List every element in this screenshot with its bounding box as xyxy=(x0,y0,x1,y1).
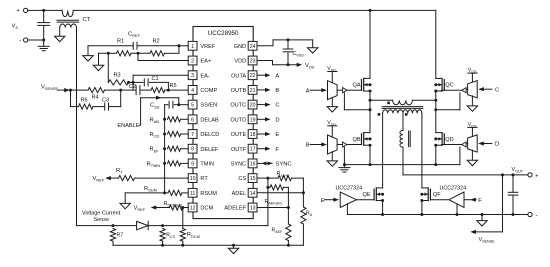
resistor RT to VREF (pin 10) xyxy=(93,176,189,183)
svg-text:SS/EN: SS/EN xyxy=(200,103,217,109)
svg-text:20: 20 xyxy=(250,103,256,109)
wire EA- (pin 3) xyxy=(132,75,189,90)
wire Vs- to input cap xyxy=(28,39,44,41)
transformer T1 primary xyxy=(369,99,438,105)
pin 6 DELAB xyxy=(188,115,219,124)
pin 15 CS xyxy=(238,174,257,183)
svg-text:OUTD: OUTD xyxy=(230,117,246,123)
gate driver buffer (C input) xyxy=(467,68,499,112)
ground (VREF bypass) xyxy=(83,46,93,61)
resistor RA(HI) CS to ADEL xyxy=(268,176,305,195)
label RAB xyxy=(150,117,160,124)
wire ground bus (timing resistors) xyxy=(163,105,166,195)
output arrow OUTA xyxy=(257,73,279,79)
svg-text:SYNC: SYNC xyxy=(276,162,292,168)
label R2 xyxy=(153,39,160,45)
resistor R2 xyxy=(150,51,165,56)
output arrow OUTC xyxy=(257,103,280,109)
pin 19 OUTD xyxy=(230,115,257,124)
label RSUM xyxy=(144,186,157,193)
output arrow OUTF xyxy=(257,147,279,153)
resistor RDCM xyxy=(180,208,185,247)
output arrow OUTE xyxy=(257,132,279,138)
label R5 xyxy=(170,83,177,89)
svg-text:OUTB: OUTB xyxy=(231,88,247,94)
wire EA+ tap (pin 2) xyxy=(138,53,188,60)
resistor RAEF(HI) CS to ADELEF xyxy=(268,185,290,209)
transistor QD xyxy=(434,133,444,147)
label QE xyxy=(363,192,371,198)
pin 12 DCM xyxy=(188,203,213,212)
svg-text:DELAB: DELAB xyxy=(200,117,219,123)
capacitor C3 xyxy=(93,90,121,110)
pin 17 OUTF xyxy=(231,144,257,153)
label Vs xyxy=(12,24,19,31)
wire GND (pin 24) xyxy=(257,38,313,45)
transistor QB xyxy=(362,133,372,147)
ground (analog) xyxy=(228,245,238,253)
resistor RTMIN xyxy=(168,161,189,166)
wire secondary left to QE drain xyxy=(382,113,384,188)
transistor QA xyxy=(362,78,372,92)
input terminal Vs+ xyxy=(17,8,28,14)
output arrow OUTB xyxy=(257,88,279,94)
svg-text:VREF: VREF xyxy=(93,176,105,183)
transistor QC xyxy=(434,78,444,92)
ground (IC GND) xyxy=(308,40,318,53)
label CREF xyxy=(128,32,141,39)
label RDCM xyxy=(187,232,200,239)
svg-text:B: B xyxy=(306,143,310,149)
pin 23 VDD xyxy=(234,56,257,65)
label RAEF xyxy=(272,228,284,235)
svg-text:C: C xyxy=(275,103,279,109)
svg-text:C2: C2 xyxy=(129,84,136,90)
transistor QF xyxy=(420,188,430,202)
label R3 xyxy=(114,73,121,79)
output terminal VOUT+ xyxy=(528,173,539,180)
svg-text:QC: QC xyxy=(445,83,453,89)
IC U1 UCC28950 body xyxy=(193,27,253,219)
label C3 xyxy=(102,98,109,104)
label RCS xyxy=(166,232,175,239)
wire U3 ground to VOUT- rail xyxy=(456,204,458,215)
resistor RCD xyxy=(168,131,189,136)
svg-text:QA: QA xyxy=(353,83,361,89)
svg-text:CREF: CREF xyxy=(128,32,141,39)
resistor RCS xyxy=(160,229,165,247)
svg-text:UCC27324: UCC27324 xyxy=(440,185,467,191)
gate coupling triangle QC xyxy=(442,88,468,93)
transistor QE xyxy=(374,188,384,202)
svg-text:E: E xyxy=(275,132,279,138)
svg-text:VSENSE: VSENSE xyxy=(41,85,58,92)
label RAEF(HI) xyxy=(265,199,282,206)
svg-text:R6: R6 xyxy=(81,98,88,104)
svg-text:15: 15 xyxy=(250,176,256,182)
label C2 xyxy=(129,84,136,90)
SYNC bidirectional arrow xyxy=(257,161,292,167)
svg-text:C1: C1 xyxy=(152,76,159,82)
svg-text:5: 5 xyxy=(191,103,194,109)
wire U2 ground to VOUT- rail xyxy=(346,204,348,215)
input VSENSE xyxy=(41,85,70,93)
label VOUT xyxy=(512,167,524,174)
label RT xyxy=(116,168,123,175)
svg-text:11: 11 xyxy=(190,191,195,197)
svg-text:A: A xyxy=(275,73,279,79)
svg-text:13: 13 xyxy=(250,206,256,212)
capacitor CREF xyxy=(133,42,137,49)
svg-text:6: 6 xyxy=(191,117,194,123)
gate coupling triangle QB xyxy=(337,142,361,147)
svg-text:R4: R4 xyxy=(92,94,99,100)
svg-text:3: 3 xyxy=(191,73,194,79)
svg-text:QB: QB xyxy=(353,137,361,143)
pin 16 SYNC xyxy=(231,159,257,168)
wire ADEL (pin 14) xyxy=(257,192,303,194)
svg-text:B: B xyxy=(275,88,279,94)
wire analog ground rail xyxy=(113,244,303,247)
resistor R3 xyxy=(108,53,133,85)
pin 10 RT xyxy=(188,174,208,183)
ground (RSUM) xyxy=(120,203,130,208)
resistor RAB xyxy=(168,117,189,122)
label QC xyxy=(445,83,453,89)
label RA xyxy=(306,211,313,218)
wire ADELEF (pin 13) xyxy=(257,207,288,209)
svg-text:VDD: VDD xyxy=(305,63,315,70)
gate coupling triangle QA xyxy=(337,88,361,93)
gate driver buffer (A input) xyxy=(306,66,338,112)
svg-text:F: F xyxy=(478,198,482,204)
pin 13 ADELEF xyxy=(224,203,257,212)
svg-text:24: 24 xyxy=(250,44,256,50)
svg-text:DELEF: DELEF xyxy=(200,147,219,153)
pin 22 OUTA xyxy=(231,71,257,80)
svg-text:VDD: VDD xyxy=(234,59,246,65)
resistor R1 xyxy=(117,51,132,56)
svg-text:QE: QE xyxy=(363,192,371,198)
wire QF gate xyxy=(431,199,447,201)
svg-text:R3: R3 xyxy=(114,73,121,79)
pin 18 OUTE xyxy=(231,130,257,139)
label RA(HI) xyxy=(277,171,290,178)
svg-text:18: 18 xyxy=(250,132,256,138)
pin 9 TMIN xyxy=(188,159,214,168)
svg-text:C3: C3 xyxy=(102,98,109,104)
diode D1 (current sense) xyxy=(137,221,149,229)
wire secondary right to QF drain xyxy=(421,113,423,188)
label RTMIN xyxy=(147,161,161,168)
label RDCM(HI) xyxy=(164,201,183,208)
label R7 xyxy=(117,232,124,238)
label UCC28950 xyxy=(208,30,239,37)
node VSENSE xyxy=(69,89,72,92)
svg-text:E: E xyxy=(321,198,325,204)
svg-text:RCD: RCD xyxy=(150,132,160,139)
transformer T1 secondary xyxy=(378,110,422,116)
svg-text:R5: R5 xyxy=(170,83,177,89)
svg-text:ENABLE: ENABLE xyxy=(117,123,139,129)
pin 20 OUTC xyxy=(230,100,257,109)
svg-text:RSUM: RSUM xyxy=(144,186,157,193)
svg-text:OUTA: OUTA xyxy=(231,73,246,79)
ground (secondary) xyxy=(477,215,487,227)
wire primary return rail xyxy=(344,164,460,166)
label R1 xyxy=(117,39,124,45)
svg-text:UCC27324: UCC27324 xyxy=(336,185,363,191)
wire VSENSE feedback tap xyxy=(470,175,502,234)
label QD xyxy=(445,137,453,143)
label CT xyxy=(83,17,91,23)
inductor LOUT xyxy=(400,113,410,175)
capacitor CSS xyxy=(165,101,179,108)
gate driver buffer (B input) xyxy=(306,120,338,166)
svg-text:ADELEF: ADELEF xyxy=(224,206,246,212)
svg-text:REF: REF xyxy=(150,147,160,154)
pin 7 DELCD xyxy=(188,130,219,139)
svg-text:RTMIN: RTMIN xyxy=(147,161,161,168)
output capacitor xyxy=(508,175,518,215)
label CSS xyxy=(150,103,160,110)
label Voltage Current Sense xyxy=(82,211,121,224)
wire VREF line (pin 1) xyxy=(88,44,188,47)
wire top rail to bridge xyxy=(73,9,436,12)
wire CS (pin 15) to sense line xyxy=(257,177,269,226)
wire QE gate xyxy=(356,199,373,201)
gate coupling triangle QD xyxy=(442,142,468,147)
svg-text:21: 21 xyxy=(250,88,256,94)
wire QB source to return rail xyxy=(369,145,372,166)
wire left bridge leg xyxy=(369,10,371,132)
pin 5 SS/EN xyxy=(188,100,217,109)
wire VOUT+ rail xyxy=(403,173,528,176)
transformer T1 core xyxy=(382,107,423,109)
svg-text:TMIN: TMIN xyxy=(200,162,214,168)
svg-text:GND: GND xyxy=(234,44,246,50)
pin 14 ADEL xyxy=(232,188,257,197)
wire Vs+ to input cap xyxy=(28,9,44,11)
svg-text:RDCM: RDCM xyxy=(187,232,200,239)
output arrow OUTD xyxy=(257,117,280,123)
gate driver buffer (D input) xyxy=(467,122,499,166)
output terminal VOUT- xyxy=(528,212,538,219)
wire QA gate return xyxy=(344,93,371,112)
svg-text:D: D xyxy=(275,117,279,123)
ground (primary return earth) xyxy=(339,168,350,172)
svg-text:A: A xyxy=(306,88,310,94)
resistor R4 xyxy=(71,88,123,93)
wire CT secondary to current sense line xyxy=(76,28,78,226)
svg-text:2: 2 xyxy=(191,59,194,65)
svg-text:CT: CT xyxy=(83,17,91,23)
svg-text:QD: QD xyxy=(445,137,453,143)
svg-text:4: 4 xyxy=(191,88,194,94)
svg-text:QF: QF xyxy=(433,192,441,198)
svg-text:D: D xyxy=(495,142,499,148)
svg-text:OUTF: OUTF xyxy=(231,147,247,153)
svg-text:OUTC: OUTC xyxy=(230,103,246,109)
resistor RAEF xyxy=(286,208,291,246)
svg-text:19: 19 xyxy=(250,117,256,123)
label C1 xyxy=(152,76,159,82)
input terminal Vs- xyxy=(19,37,28,44)
svg-text:16: 16 xyxy=(250,161,256,167)
svg-text:RSUM: RSUM xyxy=(200,191,217,197)
wire QE source xyxy=(382,201,384,215)
svg-text:VREF: VREF xyxy=(134,206,146,213)
resistor RA xyxy=(301,193,306,246)
svg-text:22: 22 xyxy=(250,73,256,79)
input capacitor xyxy=(38,9,50,42)
driver U2 UCC27324 (QE) xyxy=(321,185,362,207)
pin 8 DELEF xyxy=(188,144,219,153)
svg-text:VREF: VREF xyxy=(200,44,216,50)
pin 1 VREF xyxy=(188,41,216,50)
ground (divider) xyxy=(93,53,103,70)
svg-text:ADEL: ADEL xyxy=(232,191,247,197)
svg-text:RT: RT xyxy=(116,168,123,175)
svg-text:CSS: CSS xyxy=(150,103,160,110)
svg-text:CS: CS xyxy=(238,176,246,182)
svg-text:14: 14 xyxy=(250,191,256,197)
pin 2 EA+ xyxy=(188,56,211,65)
label R4 xyxy=(92,94,99,100)
label QF xyxy=(433,192,441,198)
resistor RSUM to ground (pin 11) xyxy=(125,190,188,203)
svg-text:COMP: COMP xyxy=(200,88,217,94)
label R6 xyxy=(81,98,88,104)
svg-text:R2: R2 xyxy=(153,39,160,45)
svg-text:-: - xyxy=(19,37,21,44)
wire QD source to return rail xyxy=(434,145,437,166)
label VSENSE (output) xyxy=(479,237,496,244)
svg-text:RT: RT xyxy=(200,176,208,182)
svg-text:-: - xyxy=(536,212,538,219)
wire QC gate return xyxy=(434,93,460,112)
wire QF source xyxy=(421,201,423,215)
resistor RDCM(HI) to VREF (pin 12) xyxy=(134,205,189,212)
resistor REF xyxy=(168,146,189,151)
ground (input earth) xyxy=(38,40,49,51)
svg-text:7: 7 xyxy=(191,132,194,138)
svg-text:Voltage Current: Voltage Current xyxy=(82,211,121,217)
capacitor CVDD xyxy=(283,40,293,66)
svg-text:1: 1 xyxy=(191,44,194,50)
driver U3 UCC27324 (QF) xyxy=(440,185,483,207)
wire QB gate return to ground xyxy=(343,147,346,168)
svg-text:10: 10 xyxy=(190,176,196,182)
label RCD xyxy=(150,132,160,139)
svg-text:12: 12 xyxy=(190,206,196,212)
capacitor C2 xyxy=(121,86,140,95)
svg-text:OUTE: OUTE xyxy=(231,132,247,138)
svg-text:VS: VS xyxy=(12,24,19,31)
label REF xyxy=(150,147,160,154)
pin 11 RSUM xyxy=(188,188,217,197)
svg-text:23: 23 xyxy=(250,59,256,65)
svg-text:DELCD: DELCD xyxy=(200,132,219,138)
svg-text:EA-: EA- xyxy=(200,73,209,79)
label QA xyxy=(353,83,361,89)
ground (CT secondary) xyxy=(55,28,65,42)
svg-text:F: F xyxy=(275,147,279,153)
svg-text:RAB: RAB xyxy=(150,117,160,124)
svg-text:Sense: Sense xyxy=(94,217,110,223)
resistor R7 xyxy=(110,229,115,246)
wire VOUT- rail xyxy=(347,213,528,216)
svg-text:8: 8 xyxy=(191,147,194,153)
label CVDD xyxy=(293,51,305,58)
svg-text:R1: R1 xyxy=(117,39,124,45)
wire QD gate return xyxy=(459,147,461,165)
wire divider line xyxy=(99,46,180,55)
wire current sense line xyxy=(77,224,268,227)
svg-text:DCM: DCM xyxy=(200,206,213,212)
pin 3 EA- xyxy=(188,71,210,80)
wire ENABLE to SS/EN (pin 5) xyxy=(117,96,188,130)
label QB xyxy=(353,137,361,143)
resistor R5 xyxy=(141,88,188,93)
capacitor C1 xyxy=(129,79,169,90)
svg-text:17: 17 xyxy=(250,147,256,153)
resistor R6 xyxy=(71,90,94,109)
wire right bridge leg xyxy=(435,10,437,132)
current transformer CT xyxy=(44,10,79,27)
svg-text:SYNC: SYNC xyxy=(231,162,247,168)
pin 24 GND xyxy=(234,41,257,50)
wire VDD (pin 23) xyxy=(257,61,315,70)
svg-text:C: C xyxy=(495,87,499,93)
svg-text:UCC28950: UCC28950 xyxy=(208,30,239,37)
pin 4 COMP xyxy=(188,86,217,95)
svg-text:R7: R7 xyxy=(117,232,124,238)
svg-text:9: 9 xyxy=(191,161,194,167)
svg-text:EA+: EA+ xyxy=(200,59,211,65)
pin 21 OUTB xyxy=(231,86,257,95)
